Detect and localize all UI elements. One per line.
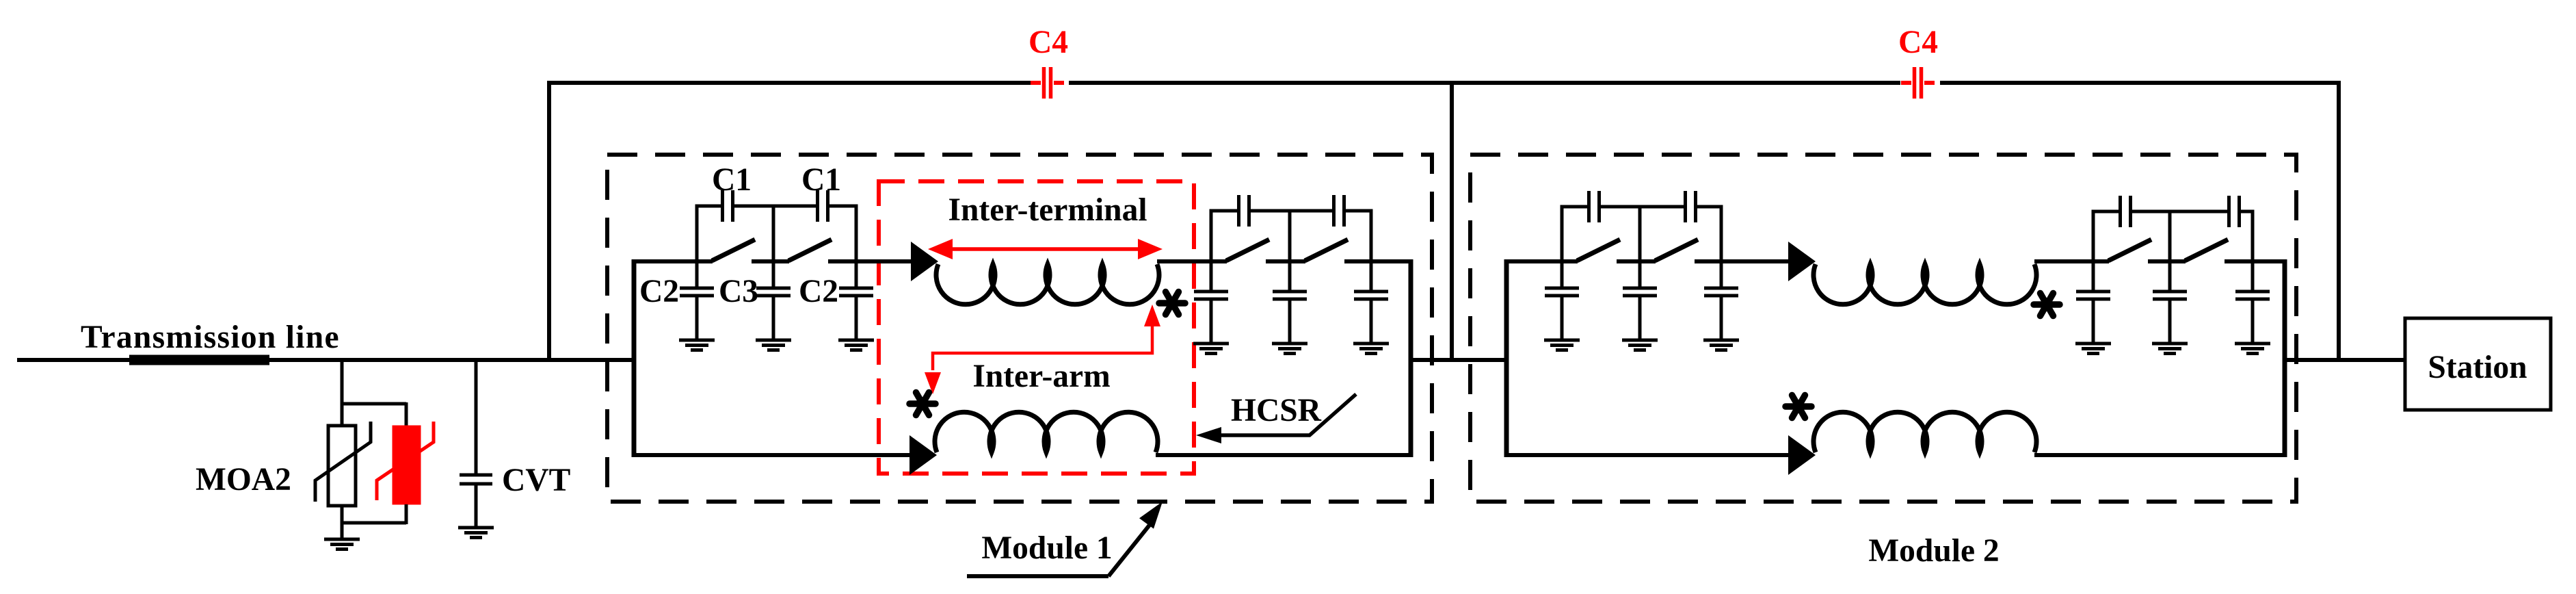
svg-text:Module 1: Module 1 <box>981 530 1112 566</box>
svg-text:C4: C4 <box>1028 25 1068 60</box>
svg-text:C2: C2 <box>639 274 679 309</box>
svg-text:Station: Station <box>2428 350 2527 385</box>
svg-text:Inter-terminal: Inter-terminal <box>948 192 1147 228</box>
svg-text:C2: C2 <box>799 274 838 309</box>
svg-text:Module 2: Module 2 <box>1868 533 1999 569</box>
svg-text:C1: C1 <box>712 162 752 198</box>
svg-text:Transmission line: Transmission line <box>81 320 340 355</box>
svg-text:C1: C1 <box>801 162 841 198</box>
svg-text:C3: C3 <box>719 274 758 309</box>
svg-text:MOA2: MOA2 <box>196 462 291 498</box>
svg-text:C4: C4 <box>1898 25 1938 60</box>
svg-text:CVT: CVT <box>502 463 570 498</box>
svg-text:HCSR: HCSR <box>1231 393 1322 428</box>
svg-text:Inter-arm: Inter-arm <box>972 359 1110 394</box>
